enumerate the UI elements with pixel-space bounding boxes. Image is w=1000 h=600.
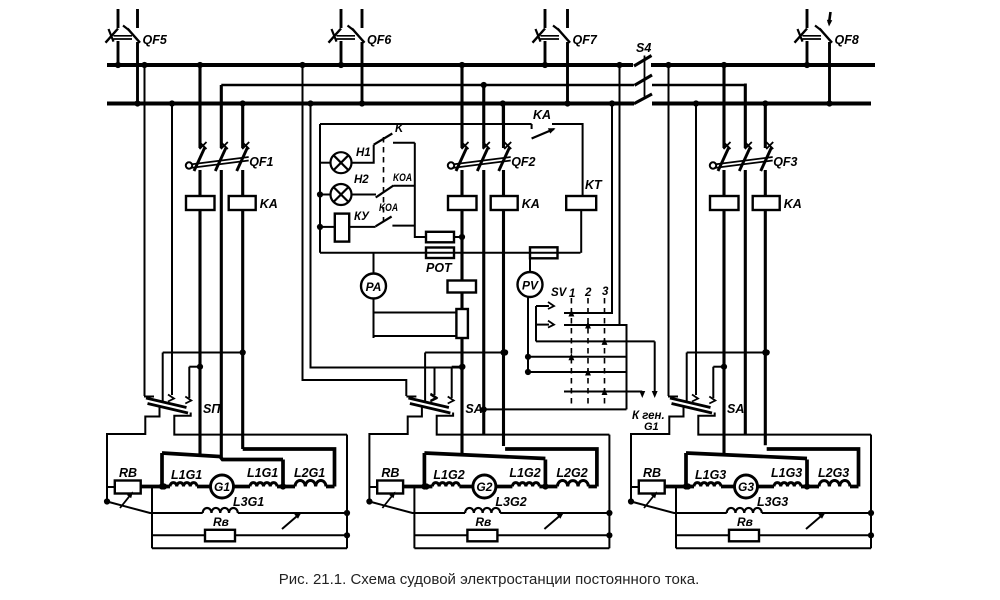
svg-text:L1G3: L1G3 [695, 468, 726, 482]
wire matrix rowC [536, 340, 655, 342]
svg-text:L3G1: L3G1 [233, 495, 264, 509]
circuit breaker QF8 [806, 9, 809, 28]
relay POT coil lower [426, 248, 454, 259]
wire feed drop left (G3) [684, 453, 688, 487]
svg-text:L2G2: L2G2 [556, 466, 587, 480]
wire bus2 around section to SA contact (G2) [307, 100, 313, 106]
wire winding to junction (G1) [277, 485, 295, 489]
svg-text:RB: RB [381, 466, 399, 480]
contact KA (top) left lead [503, 123, 532, 125]
contact K arm [374, 134, 393, 145]
shunt RS [456, 309, 468, 338]
wire winding to junction (G3) [801, 485, 819, 489]
winding L2G2 (G2) [557, 481, 588, 487]
wire pole1 mid [460, 293, 463, 310]
wire section left vertical [319, 124, 321, 253]
svg-text:QF8: QF8 [835, 33, 859, 47]
wire bus1 to SA blade (G3) [668, 65, 670, 396]
wire QF1 pole1 down [198, 170, 201, 455]
lamp H1 [331, 152, 352, 173]
wire armature feed left (G2) [424, 453, 545, 459]
wire QF3 pole3 down [764, 170, 767, 445]
contact KA (top) arm [532, 129, 554, 139]
wire QF1 pole2 down [220, 170, 223, 457]
wire field row right (G1) [238, 512, 347, 514]
contact selector stub2 [536, 324, 549, 326]
wire row right end (G3) [850, 485, 859, 489]
wire RB to Ra row (G3) [675, 487, 677, 548]
relay coils KA (G1 branch) [186, 196, 215, 210]
wire bus2 to QF3 pole3 [764, 104, 767, 149]
wire winding to junction (G2) [539, 485, 557, 489]
svg-text:KOA: KOA [393, 172, 412, 184]
wire matrix bottom to pole2 [484, 408, 627, 410]
generator G3 (G3) [735, 475, 758, 498]
wire bus2 (-) left segment [107, 102, 634, 106]
wire row right end (G1) [326, 485, 335, 489]
rheostat RB (G3) [639, 481, 665, 494]
wire block bottom (G1) [152, 547, 347, 549]
wire KA to KT corner [552, 124, 583, 196]
wire RB to row (G2) [403, 485, 432, 489]
wire step A (G2) [425, 352, 505, 354]
contact selector stub1 [536, 305, 549, 307]
contact KOA1 arm [376, 186, 394, 198]
wire armature feed left (G3) [686, 453, 807, 459]
wire PA shunt bottom [374, 335, 457, 337]
fuse FU [530, 247, 558, 258]
wire field row (G3) [631, 502, 727, 514]
wire RB to Ra row (G1) [151, 487, 153, 548]
switch S4 blade pole3 [634, 94, 652, 104]
wire QF3 pole1 down [722, 170, 725, 455]
svg-text:SA: SA [465, 402, 482, 416]
wire matrix rowB [564, 324, 620, 326]
wire selector stub bus [535, 306, 537, 341]
lamp H2 [331, 184, 352, 205]
wire field row right (G3) [762, 512, 871, 514]
ammeter PA [361, 274, 386, 299]
wire equalizer A left segment [221, 84, 634, 86]
wire KT down to bottom [580, 210, 582, 253]
wire QF2 pole2 down [482, 170, 485, 435]
winding L2G1 (G1) [295, 481, 326, 487]
svg-text:Rв: Rв [213, 515, 229, 529]
wire Ra row (G3) [676, 534, 871, 536]
svg-text:КУ: КУ [354, 211, 370, 223]
resistor Ra (G2) [467, 530, 497, 542]
wire pole1 lower [460, 338, 463, 455]
svg-text:L1G1: L1G1 [171, 468, 202, 482]
wire equalizer corner to QF1 pole2 [220, 85, 223, 148]
winding L3G3 (G3) [727, 508, 762, 513]
wire pole3 bend (G1) [243, 449, 335, 487]
switch pivot tick S&#1055; (G1) [144, 396, 154, 398]
wire bus1 to QF3 pole1 [722, 65, 725, 148]
wire block right border (G2) [608, 435, 610, 549]
wire equalizer to QF2 pole2 [482, 85, 485, 148]
svg-text:L3G2: L3G2 [495, 495, 526, 509]
wire rowB riser to bus1 [620, 65, 627, 409]
svg-text:H1: H1 [356, 147, 371, 159]
wire equalizer A right segment [652, 84, 744, 86]
contact field rheostat arrow (G3) [806, 514, 824, 530]
switch S4 blade pole2 [635, 75, 653, 85]
wire rowF drop to gen [641, 392, 643, 395]
rheostat RB (G1) [115, 481, 141, 494]
wire to generator (G1) [197, 485, 210, 489]
wire bus2 to SP contact (G1) [171, 104, 173, 396]
relay coils KA (G3 branch) [710, 196, 739, 210]
wire staircase right to block border (G2) [437, 413, 610, 435]
rheostat RB arrow (G1) [120, 493, 132, 508]
winding L1G2 (G2) [512, 483, 539, 487]
wire staircase right to block border (G1) [174, 413, 347, 435]
wire bus1 to QF2 pole1 [460, 65, 463, 148]
contact chevron2 S&#1055; (G1) [185, 397, 191, 404]
wire POT upper to pole [454, 236, 462, 238]
voltmeter PV [518, 272, 543, 297]
relay coil KT [566, 196, 596, 210]
winding L1G3 (G3) [694, 483, 721, 487]
svg-text:PV: PV [522, 279, 539, 293]
switch S4 link bar [644, 56, 646, 97]
contact field rheostat arrow (G2) [544, 514, 562, 530]
resistor on pole1 [448, 281, 477, 293]
contact chevron1 SA (G3) [692, 395, 698, 402]
wire to generator (G3) [721, 485, 734, 489]
wire PV bottom lead [527, 297, 529, 372]
wire bus2 (-) right segment [652, 102, 871, 106]
circuit breaker QF2 [456, 147, 467, 171]
wire PA top stub [373, 253, 375, 274]
wire PA bottom lead [373, 299, 375, 339]
wire KOA2 fixed stub [392, 225, 414, 227]
wire Ra row (G2) [414, 534, 609, 536]
svg-text:SA: SA [727, 402, 744, 416]
contact chevron1 SA (G2) [430, 395, 436, 402]
svg-text:QF2: QF2 [511, 155, 535, 169]
resistor Ra (G1) [205, 530, 235, 542]
wire generator to winding (G1) [235, 485, 251, 489]
svg-text:РOT: РOT [426, 261, 453, 275]
wire bus2 to QF2 pole3 [502, 104, 505, 149]
wire generator to winding (G2) [497, 485, 513, 489]
generator G2 (G2) [473, 475, 496, 498]
wire bus1 around section to SA blade (G2) [299, 62, 305, 68]
wire section bottom [320, 252, 581, 254]
winding L1G1 (G1) [250, 483, 277, 487]
wire bus1 (+) left segment [107, 63, 633, 67]
switch pivot tick SA (G3) [668, 396, 678, 398]
wire feed drop mid (G2) [544, 460, 548, 487]
svg-text:SV: SV [551, 287, 568, 299]
resistor Ra (G3) [729, 530, 759, 542]
wire KU row left [320, 226, 335, 228]
wire PV top stub [529, 253, 531, 272]
svg-text:KT: KT [585, 178, 603, 192]
wire field row (G1) [107, 502, 203, 514]
wire H2 to contact KOA1 [352, 194, 377, 196]
wire block bottom (G3) [676, 547, 871, 549]
caption [0, 571, 989, 588]
svg-text:RB: RB [643, 466, 661, 480]
switch S4 blade pole1 [634, 56, 652, 67]
contact chevron2 SA (G2) [448, 397, 454, 404]
wire matrix rowD [528, 356, 627, 358]
wire KOA1 fixed stub [394, 185, 415, 187]
svg-text:L1G1: L1G1 [247, 466, 278, 480]
switch SV column1 dashed [570, 298, 572, 404]
winding L1G3 (G3) [774, 483, 801, 487]
wire step B (G3) [713, 366, 724, 368]
wire staircase left (G3) [631, 407, 684, 502]
circuit breaker QF3 [718, 147, 729, 171]
svg-text:L1G2: L1G2 [433, 468, 464, 482]
wire ladder collector [415, 143, 426, 237]
svg-text:G1: G1 [214, 480, 230, 494]
winding L2G3 (G3) [819, 481, 850, 487]
wire bus2 to SA contact (G3) [695, 104, 697, 396]
rheostat RB arrow (G2) [382, 493, 394, 508]
wire field row (G2) [369, 502, 465, 514]
wire bus1 to SP blade (G1) [144, 65, 146, 396]
svg-text:SП: SП [203, 402, 221, 416]
wire matrix rowF [564, 391, 642, 393]
wire feed drop mid (G1) [281, 460, 285, 487]
svg-text:KA: KA [533, 108, 551, 122]
wire feed drop left (G2) [423, 453, 427, 487]
svg-text:Rв: Rв [475, 515, 491, 529]
wire matrix rowE [528, 371, 627, 373]
wire rowA riser to bus2 [611, 104, 613, 314]
wire block bottom (G2) [414, 547, 609, 549]
svg-text:QF7: QF7 [573, 33, 598, 47]
circuit breaker QF6 [340, 9, 343, 28]
svg-text:3: 3 [602, 286, 609, 298]
wire bus2 to QF1 pole3 [241, 104, 244, 149]
wire H1 left lead [320, 162, 331, 164]
svg-text:1: 1 [569, 288, 575, 300]
svg-text:QF1: QF1 [249, 155, 273, 169]
svg-text:H2: H2 [354, 174, 369, 186]
wire matrix rowA [564, 312, 613, 314]
wire RB left lead (G1) [107, 486, 115, 488]
wire feed drop mid (G3) [805, 460, 809, 487]
wire step B (G1) [189, 366, 200, 368]
svg-text:QF5: QF5 [143, 33, 168, 47]
svg-text:L1G3: L1G3 [771, 466, 802, 480]
rheostat RB arrow (G3) [644, 493, 656, 508]
svg-text:RB: RB [119, 466, 137, 480]
wire to generator (G2) [459, 485, 472, 489]
switch pivot tick SA (G2) [406, 396, 416, 398]
winding L3G2 (G2) [465, 508, 500, 513]
wire step A (G1) [163, 352, 243, 354]
circuit breaker QF1 [194, 147, 205, 171]
wire H1 to contact K [352, 145, 374, 163]
svg-text:2: 2 [584, 287, 592, 299]
wire bus1 (+) right segment [651, 63, 875, 67]
svg-text:L3G3: L3G3 [757, 495, 788, 509]
wire Ra row (G1) [152, 534, 347, 536]
relay coil KU [335, 214, 349, 242]
switch blade pair SA (G2) [408, 398, 449, 408]
wire staircase left (G2) [369, 407, 422, 502]
contact chevron2 SA (G3) [709, 397, 715, 404]
switch blade pair S&#1055; (G1) [146, 398, 187, 408]
switch SV column3 dashed [604, 298, 606, 404]
wire generator to winding (G3) [759, 485, 775, 489]
svg-text:L1G2: L1G2 [509, 466, 540, 480]
svg-text:G1: G1 [644, 421, 659, 433]
rheostat RB (G2) [377, 481, 403, 494]
wire feed drop left (G1) [160, 453, 164, 487]
circuit breaker QF5 [117, 9, 120, 28]
wire PA shunt top [374, 312, 457, 314]
switch SV column2 dashed [587, 298, 589, 404]
circuit breaker QF7 [544, 9, 547, 28]
svg-text:G3: G3 [738, 480, 754, 494]
svg-text:K: K [395, 123, 404, 135]
wire bus2 to contact KA [502, 104, 504, 125]
generator G1 (G1) [211, 475, 234, 498]
winding L3G1 (G1) [203, 508, 238, 513]
winding L1G1 (G1) [170, 483, 197, 487]
svg-text:Rв: Rв [737, 515, 753, 529]
wire bus1 to QF1 pole1 [198, 65, 201, 148]
svg-text:QF6: QF6 [367, 33, 392, 47]
wire equalizer corner to QF3 pole2 [744, 85, 745, 148]
wire RB to row (G3) [665, 485, 694, 489]
svg-text:KA: KA [260, 197, 278, 211]
svg-text:PA: PA [366, 280, 382, 294]
contact chevron1 S&#1055; (G1) [168, 395, 174, 402]
wire pole3 bend (G3) [767, 449, 859, 487]
wire field row right (G2) [500, 512, 609, 514]
svg-text:L2G3: L2G3 [818, 466, 849, 480]
wire block right border (G1) [346, 435, 348, 549]
svg-text:L2G1: L2G1 [294, 466, 325, 480]
wire RB to Ra row (G2) [413, 487, 415, 548]
wire QF3 pole2 down [744, 170, 747, 435]
wire staircase right to block border (G3) [698, 413, 871, 435]
wire H2 left lead [320, 194, 331, 196]
svg-text:G2: G2 [476, 480, 492, 494]
wire QF2 pole1 down [460, 170, 463, 281]
wire RB to row (G1) [141, 485, 170, 489]
wire step A (G3) [687, 352, 767, 354]
wire staircase left (G1) [107, 407, 160, 502]
svg-text:S4: S4 [636, 41, 651, 55]
svg-text:KA: KA [784, 197, 802, 211]
relay POT coil upper [426, 232, 454, 243]
wire pole3 bend (G2) [505, 449, 597, 487]
mech link dashed (K-KOA) [383, 137, 385, 222]
relay coils KA (G2 branch) [448, 196, 477, 210]
wire row right end (G2) [588, 485, 597, 489]
winding L1G2 (G2) [432, 483, 459, 487]
wire section top [320, 123, 504, 125]
wire RB left lead (G3) [631, 486, 639, 488]
wire QF1 pole3 down [241, 170, 244, 449]
contact KOA2 arm [376, 217, 392, 227]
switch blade pair SA (G3) [670, 398, 711, 408]
contact field rheostat arrow (G1) [282, 514, 300, 530]
svg-text:KA: KA [522, 197, 540, 211]
wire QF2 pole3 down [502, 170, 505, 446]
wire KU row right [349, 226, 375, 228]
svg-text:KOA: KOA [379, 202, 398, 214]
wire K fixed stub [393, 142, 415, 144]
wire RB left lead (G2) [369, 486, 377, 488]
wire block right border (G3) [870, 435, 872, 549]
wire rowC drop to gen [654, 341, 656, 394]
wire step B (G2) [452, 366, 463, 368]
svg-text:QF3: QF3 [773, 155, 797, 169]
wire armature feed left (G1) [162, 453, 283, 460]
